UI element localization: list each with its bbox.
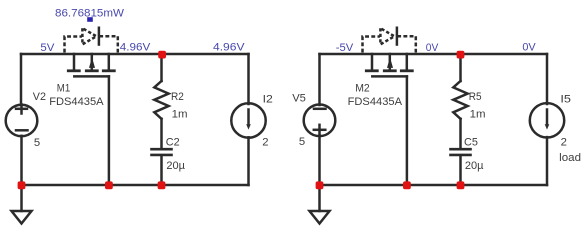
wire V2 top lead [20,54,23,105]
junction dot M1 gate bottom [105,181,113,189]
transistor M2 [366,54,412,76]
svg-text:2: 2 [262,137,268,149]
label V5 [292,92,306,104]
svg-text:M1: M1 [57,82,70,94]
svg-text:R5: R5 [469,91,482,103]
svg-text:0V: 0V [522,42,536,54]
node label 4.96V (left) [120,42,151,54]
svg-text:R2: R2 [171,91,184,103]
value 2 (I2) [262,137,268,149]
body diode of M2 (dashed) [363,27,416,53]
wire V5 bottom lead [318,136,321,185]
wire I5 top lead [546,54,549,104]
label M1 [57,82,70,94]
current source I5 [530,103,564,137]
svg-text:1m: 1m [172,109,188,121]
label R2 [171,91,184,103]
junction dot V5 bottom [316,181,324,189]
label I5 [560,93,571,105]
svg-text:0V: 0V [426,42,439,54]
resistor R2 [154,54,168,148]
label M2 [355,82,370,94]
svg-text:C5: C5 [464,136,478,148]
value 5 (V5) [299,136,305,148]
svg-text:V2: V2 [33,91,46,103]
ground right [310,185,330,224]
capacitor C2 [152,149,172,185]
value 20u (C2) [166,160,185,172]
wire V5 top lead [318,54,321,105]
node label 5V [40,42,54,54]
svg-text:2: 2 [561,137,567,149]
junction dot node 0V at R5 [457,51,465,59]
svg-text:C2: C2 [166,136,180,148]
node label 0V (left) [426,42,439,54]
wire top rail left circuit [21,53,249,56]
svg-text:4.96V: 4.96V [120,42,151,54]
label C5 [464,136,478,148]
label V2 [33,91,46,103]
svg-text:86.76815mW: 86.76815mW [55,7,124,19]
node label 0V (right) [522,42,536,54]
svg-text:I5: I5 [560,93,571,105]
transistor M1 [68,54,114,76]
wire I2 top lead [247,54,250,104]
label R5 [469,91,482,103]
svg-text:1m: 1m [470,109,486,121]
value FDS4435A (M2) [348,96,403,108]
junction dot C2 bottom [158,181,166,189]
wire bottom rail left circuit [22,184,249,187]
value 2 (I5) [561,137,567,149]
value load (I5) [559,152,581,164]
label C2 [166,136,180,148]
resistor R5 [453,54,467,148]
svg-text:FDS4435A: FDS4435A [49,96,104,108]
svg-text:M2: M2 [355,82,370,94]
junction dot node 4.96V [158,51,166,59]
svg-text:4.96V: 4.96V [213,42,245,54]
svg-text:20µ: 20µ [166,160,185,172]
svg-text:V5: V5 [292,92,306,104]
svg-text:-5V: -5V [336,42,354,54]
voltage source V2 [6,105,38,137]
power label 86.76815mW [55,7,124,19]
current source I2 [231,103,265,137]
svg-text:5: 5 [299,136,305,148]
capacitor C5 [451,149,471,185]
junction dot V2 bottom [18,181,26,189]
wire I2 bottom lead [247,137,250,185]
value 5 (V2) [34,137,40,149]
junction dot M2 gate bottom [403,181,411,189]
body diode of M1 (dashed) [65,27,118,53]
voltage source V5 [304,105,336,137]
value 20u (C5) [465,160,484,172]
junction dot C5 bottom [457,181,465,189]
ground left [12,185,32,224]
svg-text:FDS4435A: FDS4435A [348,96,403,108]
svg-text:I2: I2 [263,93,273,105]
svg-text:load: load [559,152,581,164]
wire V2 bottom lead [20,136,23,185]
wire top rail right circuit [320,53,548,56]
svg-text:20µ: 20µ [465,160,484,172]
value FDS4435A (M1) [49,96,104,108]
wire M1 gate to bottom rail [108,76,111,185]
wire I5 bottom lead [546,137,549,185]
svg-text:5V: 5V [40,42,54,54]
value 1m (R5) [470,109,486,121]
node label -5V [336,42,354,54]
value 1m (R2) [172,109,188,121]
node label 4.96V (right) [213,42,245,54]
svg-text:5: 5 [34,137,40,149]
wire M2 gate to bottom rail [406,76,409,185]
power probe marker on M1 [87,17,93,22]
label I2 [263,93,273,105]
wire bottom rail right circuit [320,184,548,187]
